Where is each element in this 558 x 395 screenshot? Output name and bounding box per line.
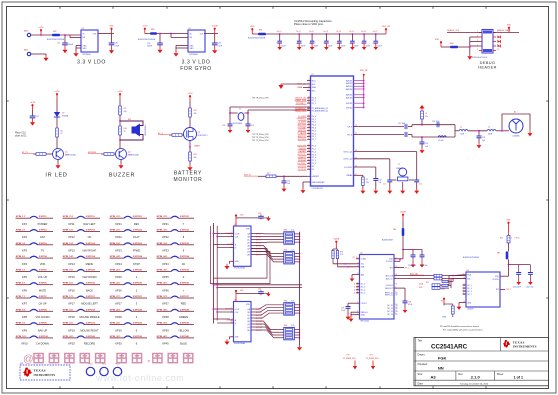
svg-text:47k: 47k xyxy=(194,113,197,115)
svg-text:4 P1.2: 4 P1.2 xyxy=(506,289,511,291)
svg-text:KPIN_13 1: KPIN_13 1 xyxy=(63,243,74,245)
svg-text:AVDD1: AVDD1 xyxy=(346,79,352,82)
svg-text:+4.5V: +4.5V xyxy=(54,91,60,93)
svg-text:KP22: KP22 xyxy=(115,235,122,239)
svg-text:A3: A3 xyxy=(431,375,437,380)
svg-text:CBBA: CBBA xyxy=(297,86,303,89)
svg-text:CLKIN: CLKIN xyxy=(361,259,367,261)
svg-text:2 KPO33: 2 KPO33 xyxy=(180,243,190,245)
svg-text:3: 3 xyxy=(308,165,309,167)
svg-text:25: 25 xyxy=(396,314,398,316)
svg-text:AV: AV xyxy=(182,262,186,266)
svg-text:KP7: KP7 xyxy=(22,302,27,306)
svg-text:CC2541ARC: CC2541ARC xyxy=(431,344,468,351)
svg-text:VDD_RF: VDD_RF xyxy=(382,26,391,28)
svg-text:P2_2: P2_2 xyxy=(312,103,316,105)
svg-text:BLUE: BLUE xyxy=(180,342,187,346)
svg-text:KP32: KP32 xyxy=(162,235,169,239)
svg-text:1 of 1: 1 of 1 xyxy=(514,376,523,380)
svg-text:100nF: 100nF xyxy=(281,46,286,48)
svg-text:BLM21PG471SZN1H: BLM21PG471SZN1H xyxy=(138,39,156,41)
svg-text:Y2: Y2 xyxy=(239,109,241,111)
svg-text:AVDD3: AVDD3 xyxy=(346,85,352,88)
svg-text:BAT-: BAT- xyxy=(24,48,29,51)
svg-text:P1_7: P1_7 xyxy=(312,139,316,141)
svg-text:Place C22: Place C22 xyxy=(15,132,26,134)
svg-text:RBIAS: RBIAS xyxy=(347,174,353,177)
svg-text:VLOGIC: VLOGIC xyxy=(386,261,393,263)
svg-text:12: 12 xyxy=(357,284,359,286)
svg-text:MMBT2222A: MMBT2222A xyxy=(65,153,76,156)
svg-text:SCL: SCL xyxy=(467,278,471,280)
svg-text:KP9: KP9 xyxy=(22,328,27,332)
svg-text:C30: C30 xyxy=(115,43,118,45)
svg-text:P1_5: P1_5 xyxy=(312,160,316,162)
svg-text:16: 16 xyxy=(463,277,465,279)
svg-text:KPIN_28 1: KPIN_28 1 xyxy=(110,309,121,311)
svg-text:GND: GND xyxy=(235,337,240,339)
svg-text:+4.5V: +4.5V xyxy=(187,93,193,95)
svg-text:RN4: RN4 xyxy=(284,325,287,327)
svg-text:10: 10 xyxy=(497,49,499,51)
svg-text:56k: 56k xyxy=(366,182,369,184)
svg-text:P0_5: P0_5 xyxy=(312,130,316,132)
svg-text:2 KPO29: 2 KPO29 xyxy=(133,323,143,325)
svg-text:KP1: KP1 xyxy=(22,222,27,226)
svg-text:BLM21PG471SZN1H: BLM21PG471SZN1H xyxy=(248,38,266,40)
svg-text:TEXAS: TEXAS xyxy=(34,369,46,373)
svg-text:13: 13 xyxy=(357,257,359,259)
svg-text:FB4: FB4 xyxy=(450,43,453,45)
svg-text:KPIN_19 1: KPIN_19 1 xyxy=(63,323,74,325)
svg-text:Pin 13: Pin 13 xyxy=(323,31,328,33)
svg-text:TP4 TP_I2Gxx_KTH: TP4 TP_I2Gxx_KTH xyxy=(252,97,269,99)
svg-text:18: 18 xyxy=(357,293,359,295)
svg-text:2 KPO18: 2 KPO18 xyxy=(86,309,96,311)
svg-text:KPIN_20 1: KPIN_20 1 xyxy=(63,336,74,338)
svg-text:RED: RED xyxy=(181,302,187,306)
svg-text:6: 6 xyxy=(308,89,309,91)
svg-text:100nF: 100nF xyxy=(328,46,333,48)
svg-text:KP4: KP4 xyxy=(22,262,27,266)
svg-text:P1_3: P1_3 xyxy=(312,154,316,156)
svg-text:DCOUPL: DCOUPL xyxy=(344,167,352,169)
svg-text:NC_4: NC_4 xyxy=(467,291,472,293)
svg-text:P1_5: P1_5 xyxy=(405,267,409,269)
svg-text:23: 23 xyxy=(463,288,465,290)
svg-text:P2_ARDBGEN_Q1: P2_ARDBGEN_Q1 xyxy=(312,109,328,112)
svg-text:2.2nF: 2.2nF xyxy=(341,310,345,312)
svg-text:KPIN_31 1: KPIN_31 1 xyxy=(157,216,168,218)
svg-text:C11: C11 xyxy=(296,43,299,45)
svg-text:6: 6 xyxy=(308,121,309,123)
svg-text:R23: R23 xyxy=(194,154,197,156)
svg-text:KPIN_22 1: KPIN_22 1 xyxy=(110,230,121,232)
svg-text:2 KPO11: 2 KPO11 xyxy=(86,216,96,218)
svg-text:GND: GND xyxy=(467,302,472,304)
svg-text:2 KPO27: 2 KPO27 xyxy=(133,296,143,298)
svg-text:1: 1 xyxy=(308,79,309,81)
svg-text:R1: R1 xyxy=(366,179,368,181)
svg-text:22: 22 xyxy=(357,262,359,264)
svg-text:C17 18pF: C17 18pF xyxy=(398,123,405,125)
svg-text:100nF: 100nF xyxy=(68,44,74,46)
svg-text:C14: C14 xyxy=(336,43,339,45)
svg-text:12: 12 xyxy=(354,286,356,288)
svg-text:2 KPO6: 2 KPO6 xyxy=(39,283,48,285)
svg-text:KP28: KP28 xyxy=(115,315,122,319)
svg-text:KP18: KP18 xyxy=(68,315,75,319)
svg-text:C45: C45 xyxy=(258,288,261,290)
svg-text:2 KPO36: 2 KPO36 xyxy=(180,283,190,285)
svg-text:2 P1.0: 2 P1.0 xyxy=(514,238,519,240)
svg-text:KP17: KP17 xyxy=(68,302,75,306)
svg-text:2 KPO17: 2 KPO17 xyxy=(86,296,96,298)
svg-text:C30 2.2uF: C30 2.2uF xyxy=(526,286,533,288)
svg-text:KP14: KP14 xyxy=(68,262,75,266)
svg-text:CPOUT: CPOUT xyxy=(361,303,368,305)
svg-text:Size:: Size: xyxy=(418,373,424,376)
svg-text:Date:: Date: xyxy=(418,382,424,385)
svg-text:KPIN_11 1: KPIN_11 1 xyxy=(63,216,74,218)
svg-text:C19: C19 xyxy=(425,143,428,145)
svg-text:220: 220 xyxy=(124,111,127,113)
svg-text:KPIN_35 1: KPIN_35 1 xyxy=(157,269,168,271)
svg-text:2B2C: 2B2C xyxy=(227,320,232,322)
svg-text:RECORD: RECORD xyxy=(84,342,95,346)
svg-text:2 KPO32: 2 KPO32 xyxy=(180,230,190,232)
svg-text:KP38: KP38 xyxy=(162,315,169,319)
svg-text:C22: C22 xyxy=(36,116,39,118)
svg-text:D7: D7 xyxy=(62,112,64,114)
svg-text:VOL DOWN: VOL DOWN xyxy=(35,315,49,319)
svg-text:KPIN_23 1: KPIN_23 1 xyxy=(110,243,121,245)
svg-text:1k: 1k xyxy=(124,131,126,133)
svg-text:P0_6: P0_6 xyxy=(312,133,316,135)
svg-text:4: 4 xyxy=(308,99,309,101)
svg-text:KP16: KP16 xyxy=(68,288,75,292)
svg-text:2 KPO19: 2 KPO19 xyxy=(86,323,96,325)
svg-text:KPIN_36 1: KPIN_36 1 xyxy=(157,283,168,285)
svg-text:C28: C28 xyxy=(222,125,225,127)
svg-text:KP30: KP30 xyxy=(115,342,122,346)
svg-text:DEBUG_CLK: DEBUG_CLK xyxy=(447,30,460,32)
svg-text:20: 20 xyxy=(357,287,359,289)
svg-text:24: 24 xyxy=(463,294,465,296)
svg-text:C31 0.1uF: C31 0.1uF xyxy=(420,265,427,267)
svg-text:MENU: MENU xyxy=(86,262,94,266)
svg-text:17: 17 xyxy=(308,86,310,88)
svg-text:KPIN_29 1: KPIN_29 1 xyxy=(110,323,121,325)
svg-text:2 KPO31: 2 KPO31 xyxy=(180,216,190,218)
svg-text:TPS78630: TPS78630 xyxy=(82,54,91,56)
svg-text:NC_5: NC_5 xyxy=(467,294,472,296)
svg-text:TP4: TP4 xyxy=(369,355,372,357)
svg-text:KPIN_17 1: KPIN_17 1 xyxy=(63,296,74,298)
svg-text:2 KPO7: 2 KPO7 xyxy=(39,296,48,298)
svg-text:Q3: Q3 xyxy=(198,132,201,134)
svg-text:C24 12pF: C24 12pF xyxy=(432,121,439,123)
svg-text:2 KPO5: 2 KPO5 xyxy=(39,269,48,271)
svg-text:C13: C13 xyxy=(323,43,326,45)
svg-text:uCLR: uCLR xyxy=(235,233,240,235)
svg-text:VOL UP: VOL UP xyxy=(38,275,48,279)
svg-text:C12: C12 xyxy=(419,183,422,185)
svg-text:2 KPO10: 2 KPO10 xyxy=(39,336,49,338)
svg-text:12: 12 xyxy=(357,273,359,275)
svg-text:2 KPO38: 2 KPO38 xyxy=(180,309,190,311)
svg-text:SN74LV164A: SN74LV164A xyxy=(234,342,246,345)
svg-text:BLM21SZN1H: BLM21SZN1H xyxy=(382,239,394,241)
svg-text:2 KPO40: 2 KPO40 xyxy=(180,335,190,338)
svg-text:P0_7: P0_7 xyxy=(312,136,316,138)
svg-text:KP33: KP33 xyxy=(162,249,169,253)
svg-text:KP3: KP3 xyxy=(22,249,27,253)
svg-text:NC_12: NC_12 xyxy=(387,311,393,313)
svg-text:0.1uF: 0.1uF xyxy=(408,304,412,306)
svg-text:MPU-3000: MPU-3000 xyxy=(361,320,370,322)
svg-text:9: 9 xyxy=(308,83,309,85)
svg-text:IR333A: IR333A xyxy=(62,114,69,117)
svg-text:L1 2nH: L1 2nH xyxy=(438,140,444,142)
svg-text:U5: U5 xyxy=(360,252,362,254)
svg-text:VQ2M: VQ2M xyxy=(333,239,339,241)
svg-text:TP_I2S0B_FTH: TP_I2S0B_FTH xyxy=(343,358,356,360)
svg-text:C10: C10 xyxy=(277,43,280,45)
svg-text:KP11: KP11 xyxy=(68,222,75,226)
svg-text:P1_4: P1_4 xyxy=(312,157,316,159)
svg-text:3.3 V LDO: 3.3 V LDO xyxy=(182,60,211,66)
svg-text:KPIN_30 1: KPIN_30 1 xyxy=(110,336,121,338)
svg-text:KP26: KP26 xyxy=(115,288,122,292)
svg-text:17: 17 xyxy=(354,289,356,291)
svg-text:+4.5V: +4.5V xyxy=(117,91,123,93)
svg-text:RF_P: RF_P xyxy=(347,126,353,128)
svg-text:26: 26 xyxy=(357,290,359,292)
svg-text:KPIN_32 1: KPIN_32 1 xyxy=(157,230,168,232)
svg-text:NTR1P02T1: NTR1P02T1 xyxy=(198,135,208,137)
svg-text:SCVDD: SCVDD xyxy=(493,279,500,281)
svg-text:2 KPO4: 2 KPO4 xyxy=(39,255,48,258)
svg-text:KPIN_7 1: KPIN_7 1 xyxy=(16,296,26,298)
svg-text:KP6: KP6 xyxy=(22,288,27,292)
svg-text:VDD_RF: VDD_RF xyxy=(360,70,369,72)
svg-text:2 KPO15: 2 KPO15 xyxy=(86,269,96,271)
svg-text:YELLOW: YELLOW xyxy=(178,328,189,332)
svg-text:C15: C15 xyxy=(349,43,352,45)
svg-text:+4.5V: +4.5V xyxy=(142,26,148,28)
svg-text:1: 1 xyxy=(308,138,309,140)
svg-text:NC_4: NC_4 xyxy=(361,290,366,292)
svg-text:R12: R12 xyxy=(426,282,429,284)
svg-text:L4: L4 xyxy=(488,127,490,129)
svg-text:AUX_DA: AUX_DA xyxy=(386,274,394,277)
svg-text:POWER: POWER xyxy=(38,222,48,226)
svg-text:2 KPO39: 2 KPO39 xyxy=(180,323,190,325)
svg-text:Rev:: Rev: xyxy=(458,373,463,376)
svg-text:Q1: Q1 xyxy=(65,151,68,153)
svg-text:REV: REV xyxy=(134,222,140,226)
svg-text:XOSC_Q1: XOSC_Q1 xyxy=(343,151,352,153)
svg-text:2 KPO16: 2 KPO16 xyxy=(86,283,96,285)
svg-text:MOUSE RIGHT: MOUSE RIGHT xyxy=(80,328,99,332)
svg-text:FB1: FB1 xyxy=(259,30,262,32)
svg-text:BAT+: BAT+ xyxy=(24,29,30,32)
svg-text:16: 16 xyxy=(308,135,310,137)
svg-text:Tuesday, December 04, 2012: Tuesday, December 04, 2012 xyxy=(460,382,489,385)
svg-text:KPIN_15 1: KPIN_15 1 xyxy=(63,269,74,271)
svg-text:KPIN_33 1: KPIN_33 1 xyxy=(157,243,168,245)
svg-text:2 KPO35: 2 KPO35 xyxy=(180,269,190,271)
svg-text:NC_13: NC_13 xyxy=(387,314,393,316)
svg-text:Pin 12: Pin 12 xyxy=(309,31,314,33)
svg-text:NAV UP: NAV UP xyxy=(38,328,48,332)
svg-text:INSTRUMENTS: INSTRUMENTS xyxy=(513,344,537,348)
svg-text:Q2: Q2 xyxy=(128,151,131,153)
svg-text:28: 28 xyxy=(396,311,398,313)
svg-text:Pin 15: Pin 15 xyxy=(349,31,354,33)
svg-text:CC2541F256: CC2541F256 xyxy=(312,188,323,190)
svg-text:FFWD: FFWD xyxy=(133,249,141,253)
svg-text:19: 19 xyxy=(395,284,397,286)
svg-text:P0_3: P0_3 xyxy=(312,125,316,127)
svg-text:FID3: FID3 xyxy=(116,364,120,366)
svg-text:2 KPO30: 2 KPO30 xyxy=(133,336,143,338)
svg-text:27: 27 xyxy=(396,294,398,296)
svg-text:Place close to VDD pins:: Place close to VDD pins: xyxy=(294,22,324,26)
svg-text:18: 18 xyxy=(308,123,310,125)
svg-text:NC_5: NC_5 xyxy=(361,293,366,295)
svg-text:C21: C21 xyxy=(57,43,60,45)
svg-text:2 KPO14: 2 KPO14 xyxy=(86,255,96,258)
svg-text:KPIN_5 1: KPIN_5 1 xyxy=(16,269,26,271)
svg-text:CLKOUT: CLKOUT xyxy=(386,285,394,287)
svg-text:10: 10 xyxy=(308,150,310,152)
svg-text:C16: C16 xyxy=(361,43,364,45)
svg-text:BLM21PG471SZN1H: BLM21PG471SZN1H xyxy=(463,257,480,259)
svg-text:TP2 TP_I2Gxx_KTH: TP2 TP_I2Gxx_KTH xyxy=(252,137,269,139)
svg-text:KP40: KP40 xyxy=(162,342,169,346)
svg-text:C12: C12 xyxy=(309,43,312,45)
svg-text:Title:: Title: xyxy=(418,340,423,343)
svg-text:AD0: AD0 xyxy=(361,273,365,276)
svg-text:2 KPO20: 2 KPO20 xyxy=(86,336,96,338)
svg-text:C16: C16 xyxy=(287,180,290,182)
svg-text:NN: NN xyxy=(438,365,444,370)
svg-text:23: 23 xyxy=(463,291,465,293)
svg-text:2 KPO1: 2 KPO1 xyxy=(39,216,48,218)
svg-text:VDD: VDD xyxy=(506,220,511,222)
svg-text:4: 4 xyxy=(308,144,309,146)
svg-text:FB2: FB2 xyxy=(53,31,56,33)
svg-text:TP2: TP2 xyxy=(346,355,349,357)
svg-text:KPIN_3 1: KPIN_3 1 xyxy=(16,243,26,245)
svg-text:P2_1: P2_1 xyxy=(312,100,316,102)
svg-text:VOD: VOD xyxy=(40,262,46,266)
svg-text:Pin 11: Pin 11 xyxy=(296,31,301,33)
svg-text:CH DOWN: CH DOWN xyxy=(36,342,49,346)
svg-text:KP13: KP13 xyxy=(68,249,75,253)
svg-text:FID1: FID1 xyxy=(89,364,93,366)
svg-text:@: @ xyxy=(23,353,34,365)
svg-text:0: 0 xyxy=(511,238,512,240)
svg-text:KPIN_8 1: KPIN_8 1 xyxy=(16,309,26,311)
svg-text:INSTRUMENTS: INSTRUMENTS xyxy=(34,374,56,377)
svg-text:KPIN_10 1: KPIN_10 1 xyxy=(16,336,27,338)
svg-text:GREEN: GREEN xyxy=(179,315,188,319)
svg-text:17: 17 xyxy=(308,126,310,128)
svg-text:NC_11: NC_11 xyxy=(387,308,392,310)
svg-text:OK: OK xyxy=(88,235,92,239)
svg-text:BATTERY: BATTERY xyxy=(174,170,202,176)
svg-text:DVDD2: DVDD2 xyxy=(346,107,352,109)
svg-text:GND/GNDPAD: GND/GNDPAD xyxy=(312,181,325,184)
svg-text:KP37: KP37 xyxy=(162,302,169,306)
svg-text:2 KPO26: 2 KPO26 xyxy=(133,283,143,285)
svg-text:17: 17 xyxy=(308,107,310,109)
svg-text:KPIN_27 1: KPIN_27 1 xyxy=(110,296,121,298)
svg-text:KP27: KP27 xyxy=(115,302,122,306)
svg-text:100nF: 100nF xyxy=(301,46,306,48)
svg-text:3.3 V LDO: 3.3 V LDO xyxy=(77,60,106,66)
svg-text:2 KPO9: 2 KPO9 xyxy=(39,323,48,325)
svg-text:P1_3: P1_3 xyxy=(353,257,357,259)
svg-text:KP29: KP29 xyxy=(115,328,122,332)
svg-text:BACK: BACK xyxy=(86,288,93,292)
svg-text:KPIN_6 1: KPIN_6 1 xyxy=(16,283,26,285)
svg-text:KPIN_26 1: KPIN_26 1 xyxy=(110,283,121,285)
svg-text:KPIN_40 1: KPIN_40 1 xyxy=(157,335,168,338)
svg-text:32MHZ: 32MHZ xyxy=(396,168,403,170)
svg-text:1uF: 1uF xyxy=(425,146,428,148)
svg-text:+4.5V: +4.5V xyxy=(38,27,44,29)
svg-text:Pin 16: Pin 16 xyxy=(361,31,366,33)
svg-text:RN3: RN3 xyxy=(284,301,287,303)
svg-text:TV: TV xyxy=(41,249,45,253)
svg-text:VDD: VDD xyxy=(250,26,255,28)
svg-text:56k: 56k xyxy=(194,157,197,159)
svg-text:KPIN_34 1: KPIN_34 1 xyxy=(157,255,168,258)
svg-text:FB4: FB4 xyxy=(393,229,396,231)
svg-text:NC1: NC1 xyxy=(312,90,316,92)
svg-text:C17: C17 xyxy=(373,43,376,45)
svg-text:KP39: KP39 xyxy=(162,328,169,332)
svg-text:KP8: KP8 xyxy=(22,315,27,319)
svg-text:NAV LEFT: NAV LEFT xyxy=(83,222,96,226)
svg-text:RESV_2a: RESV_2a xyxy=(385,294,393,296)
svg-text:VDD: VDD xyxy=(507,25,512,27)
svg-text:100nF: 100nF xyxy=(354,46,359,48)
svg-text:21: 21 xyxy=(463,285,465,287)
svg-text:2 KPO37: 2 KPO37 xyxy=(180,296,190,298)
svg-text:14: 14 xyxy=(396,305,398,307)
svg-text:P0_0: P0_0 xyxy=(312,116,316,118)
svg-text:L3: L3 xyxy=(425,113,427,115)
svg-text:3: 3 xyxy=(308,168,309,170)
svg-text:C34 100nF: C34 100nF xyxy=(513,286,521,288)
svg-text:VBATT: VBATT xyxy=(194,144,201,147)
svg-text:KPIN_12 1: KPIN_12 1 xyxy=(63,230,74,232)
svg-text:KP10: KP10 xyxy=(21,342,28,346)
svg-text:KPIN_37 1: KPIN_37 1 xyxy=(157,296,168,298)
svg-text:5: 5 xyxy=(308,115,309,117)
svg-text:TP1 TP_I2Gxx_KTH: TP1 TP_I2Gxx_KTH xyxy=(252,140,269,142)
svg-text:FB3: FB3 xyxy=(497,253,500,255)
svg-text:KPIN_38 1: KPIN_38 1 xyxy=(157,309,168,311)
svg-text:NC_3: NC_3 xyxy=(467,288,472,290)
svg-text:R6: R6 xyxy=(61,130,63,132)
svg-text:2.2k: 2.2k xyxy=(291,249,294,251)
